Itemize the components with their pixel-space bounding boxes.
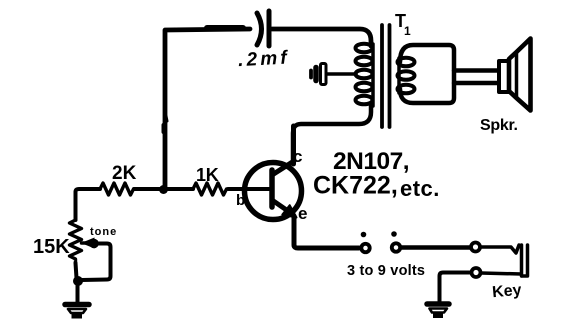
svg-text:etc.: etc. xyxy=(400,176,440,201)
svg-text:b: b xyxy=(236,192,245,209)
svg-text:1: 1 xyxy=(404,24,411,38)
svg-text:15K: 15K xyxy=(33,236,70,258)
svg-text:.2mf: .2mf xyxy=(238,47,291,71)
svg-text:c: c xyxy=(293,147,302,166)
svg-text:e: e xyxy=(298,204,307,223)
svg-text:Key: Key xyxy=(491,282,522,302)
svg-text:3 to 9 volts: 3 to 9 volts xyxy=(347,263,425,279)
svg-text:1K: 1K xyxy=(196,165,219,185)
svg-text:tone: tone xyxy=(90,226,117,238)
svg-text:CK722,: CK722, xyxy=(313,172,398,200)
svg-text:Spkr.: Spkr. xyxy=(480,117,518,134)
svg-text:2K: 2K xyxy=(112,163,137,184)
